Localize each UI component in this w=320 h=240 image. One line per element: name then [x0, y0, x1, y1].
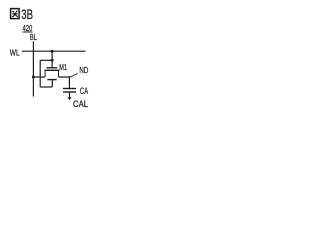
- wire WL horizontal: [22, 50, 86, 52]
- wire gate stem: [51, 51, 53, 68]
- CA bottom plate: [63, 91, 76, 93]
- figure title kanji 図: [11, 9, 20, 19]
- junction node BL to source wire: [32, 76, 35, 79]
- underline of 420: [23, 31, 33, 33]
- M1 gate bar: [47, 67, 58, 69]
- M1 drain leg: [58, 70, 60, 77]
- junction node on WL at gate: [51, 50, 54, 53]
- svg-text:M1: M1: [59, 62, 67, 72]
- wire gate-loop bottom: [40, 86, 52, 88]
- svg-text:CAL: CAL: [73, 99, 88, 109]
- wire BL to source: [33, 76, 45, 78]
- ND leader line: [70, 73, 78, 77]
- svg-text:ND: ND: [79, 65, 88, 75]
- svg-text:3B: 3B: [21, 7, 33, 23]
- capacitor CA: [63, 89, 76, 93]
- M1 back-gate bar: [47, 79, 56, 81]
- svg-text:BL: BL: [30, 32, 37, 42]
- svg-text:WL: WL: [10, 47, 20, 57]
- M1 channel bar: [45, 69, 60, 71]
- CA top plate: [63, 88, 76, 90]
- wire capacitor to CAL terminal: [69, 92, 71, 97]
- CAL terminal arrow: [68, 97, 72, 100]
- svg-text:CA: CA: [80, 86, 88, 96]
- transistor M1: [45, 68, 60, 80]
- junction node on gate stem (loop tap): [51, 59, 54, 62]
- wire BL vertical: [32, 41, 34, 96]
- wire gate-loop top: [40, 59, 52, 61]
- M1 source leg: [44, 70, 46, 77]
- wire back-gate stem: [51, 80, 53, 87]
- wire gate-loop left: [39, 60, 41, 87]
- wire drain to capacitor: [59, 77, 70, 88]
